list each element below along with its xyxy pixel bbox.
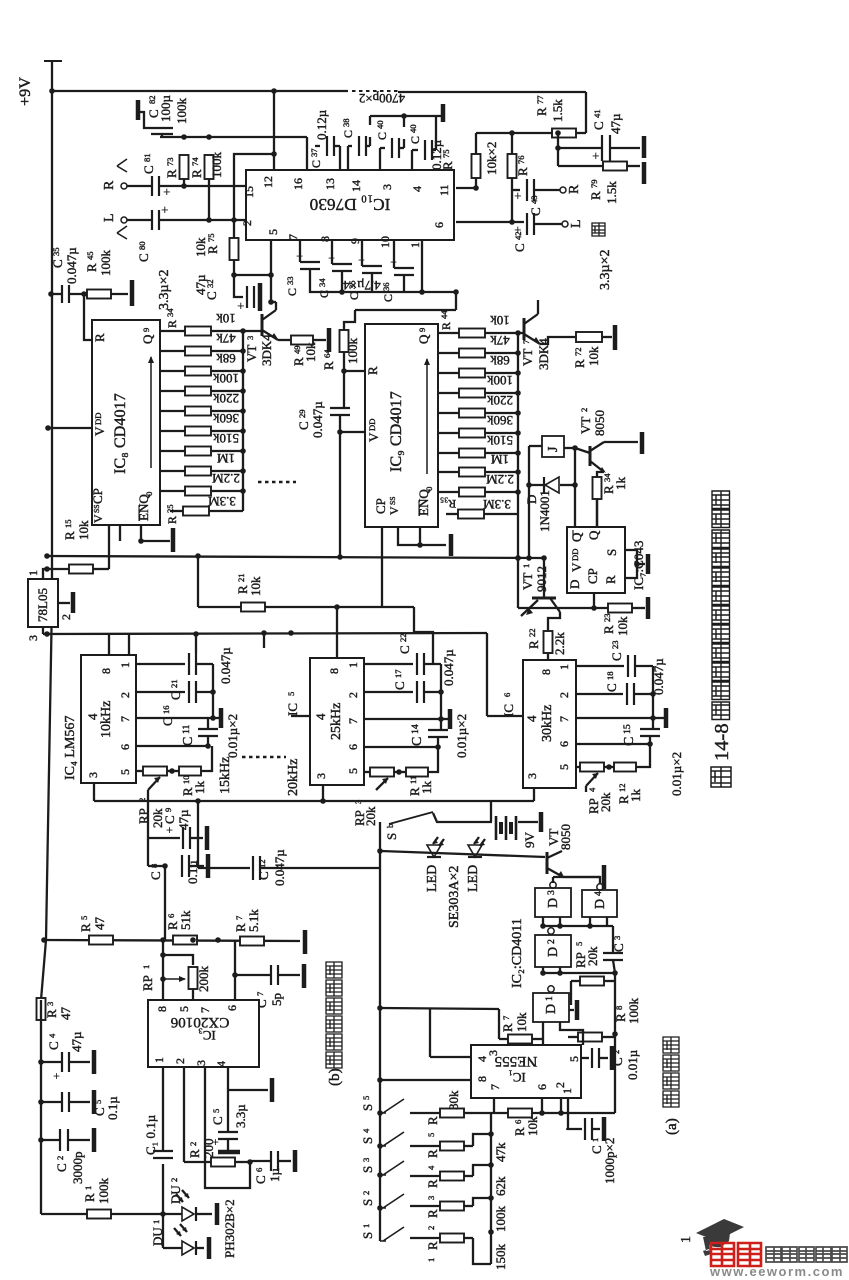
svg-text:R: R — [78, 923, 93, 932]
svg-text:2: 2 — [557, 692, 571, 698]
node rail 634 — [44, 631, 50, 637]
svg-text:S: S — [384, 833, 399, 840]
svg-text:8: 8 — [327, 668, 341, 674]
svg-text:1: 1 — [679, 1236, 694, 1243]
svg-text:R: R — [92, 333, 107, 342]
wire pin1 78L05 — [43, 569, 46, 579]
svg-text:+: + — [328, 251, 335, 265]
svg-text:CX20106: CX20106 — [170, 1014, 229, 1030]
svg-text:0.01µ×2: 0.01µ×2 — [669, 752, 684, 796]
wire IC8 Q3 row — [160, 390, 186, 392]
svg-text:9V: 9V — [522, 832, 537, 849]
resistor R25 3.3M — [183, 507, 209, 516]
node 271 302 — [268, 299, 274, 305]
svg-text:S: S — [360, 1232, 375, 1239]
wire rail right segment — [398, 91, 586, 93]
svg-text:5: 5 — [286, 692, 296, 696]
wire FF CP — [593, 593, 595, 608]
resistor ladder8 10k — [185, 327, 211, 336]
svg-text:5: 5 — [79, 916, 89, 920]
ground SR — [646, 554, 651, 574]
wire R3tx — [410, 1175, 440, 1177]
wire rail dashed gap — [352, 90, 398, 92]
resistor R75 input 10k — [230, 238, 239, 260]
capacitor C41 — [601, 135, 603, 161]
svg-text:SS: SS — [92, 505, 101, 513]
svg-text:ENQ: ENQ — [136, 494, 151, 521]
node bus8 411 — [240, 408, 246, 414]
wire R7tx left col — [498, 1009, 500, 1039]
svg-text:CP: CP — [373, 498, 388, 514]
wire IC9 Q8 row — [438, 491, 460, 493]
wire C12 col — [197, 801, 199, 868]
svg-text:17: 17 — [393, 669, 403, 678]
svg-text:4: 4 — [426, 1165, 436, 1170]
svg-text:7: 7 — [198, 1007, 212, 1013]
ground VT tx — [602, 865, 607, 889]
resistor R7tx 10k — [508, 1035, 532, 1044]
resistor R5 47 — [89, 936, 113, 945]
wire S pin — [625, 550, 637, 578]
svg-text:R: R — [425, 1149, 440, 1158]
node rail C35 — [48, 291, 54, 297]
node bus380 1080 — [377, 1077, 383, 1083]
svg-text:3: 3 — [26, 635, 40, 641]
wire IC9 Q1 row — [438, 352, 460, 354]
wire pin3 78L05 — [42, 627, 44, 634]
svg-text:3: 3 — [194, 1060, 208, 1066]
wire CP9 drop — [381, 527, 383, 607]
wire Vss drop — [119, 525, 121, 541]
svg-text:8050: 8050 — [592, 410, 607, 436]
counter IC8 CD4017 box — [92, 320, 160, 525]
svg-text:41: 41 — [592, 109, 602, 118]
resistor R76 — [508, 154, 517, 178]
resistor ladder9 510k — [459, 449, 485, 458]
svg-text:R: R — [603, 575, 618, 584]
svg-text:R: R — [321, 361, 336, 370]
svg-text:82: 82 — [147, 95, 157, 104]
svg-text:6: 6 — [513, 1119, 523, 1124]
wire C9 down — [147, 838, 149, 866]
svg-text:47k: 47k — [216, 331, 236, 346]
capacitor C12 — [252, 856, 254, 880]
wire C42 right — [534, 223, 562, 225]
svg-text:R: R — [165, 516, 179, 524]
wire VT7 base — [518, 332, 524, 334]
timer IC1 NE555 box — [471, 1045, 581, 1098]
wire 213 col — [212, 664, 214, 718]
svg-text:VT: VT — [520, 573, 535, 590]
ellipsis bus continuation — [258, 481, 296, 484]
wire pin2 row IC6 — [576, 693, 623, 695]
resistor ladder9 1M — [459, 468, 485, 477]
wire bus 634 — [43, 633, 487, 634]
arrow Q bus IC8 — [150, 357, 152, 468]
wire bus8 — [242, 331, 244, 511]
capacitor C23 — [627, 655, 629, 677]
wire pin5 row IC5 — [364, 771, 370, 773]
wire R1 elbow — [473, 1238, 491, 1264]
wire pin4 gnd2 — [228, 1089, 268, 1091]
svg-text:1k: 1k — [628, 789, 643, 803]
svg-text:10k: 10k — [76, 520, 91, 540]
wire R77 left — [476, 132, 552, 134]
svg-text:25kHz: 25kHz — [329, 703, 344, 740]
tone decoder IC4 LM567 box — [81, 655, 136, 783]
ground C2tx — [610, 1046, 615, 1070]
LED2 — [468, 845, 482, 857]
wire C34 down — [341, 271, 343, 292]
svg-text:44: 44 — [439, 310, 449, 319]
wire C14 col — [440, 719, 442, 730]
node bus9 393 — [515, 390, 521, 396]
switch S4 — [383, 1132, 404, 1146]
resistor ladder8 47k — [185, 347, 211, 356]
svg-text:8: 8 — [539, 669, 553, 675]
node bus8 451 — [240, 448, 246, 454]
wire R76 top — [511, 133, 513, 154]
wire pin2 78L05 — [58, 602, 70, 604]
svg-text:20k: 20k — [585, 946, 600, 966]
svg-text:3: 3 — [353, 800, 363, 804]
wire IC6 pin4 drop — [486, 633, 488, 716]
ground C32 — [258, 283, 263, 311]
svg-text:3: 3 — [546, 890, 557, 895]
wire pin7 row IC6 — [576, 717, 653, 719]
svg-text:1N4001: 1N4001 — [537, 490, 552, 532]
svg-text:10k: 10k — [248, 576, 263, 596]
transistor VT2 8050 — [589, 446, 592, 466]
resistor R79 — [603, 162, 627, 171]
svg-text:7: 7 — [286, 234, 300, 240]
node SR — [634, 561, 640, 567]
ground C1tx — [602, 1117, 607, 1141]
svg-text:100k: 100k — [213, 371, 240, 386]
svg-text:43: 43 — [529, 195, 539, 204]
node rail 556 — [44, 553, 50, 559]
wire IC9 Q7 row — [438, 471, 460, 473]
wire row940 — [44, 940, 300, 941]
counter IC9 CD4017 box — [365, 324, 438, 527]
wire VT2 collector — [604, 441, 638, 443]
battery 9V — [495, 816, 498, 840]
svg-text:(a): (a) — [664, 1118, 680, 1135]
node r8 right — [612, 1031, 618, 1037]
svg-text:1: 1 — [408, 242, 422, 248]
svg-text:CP: CP — [585, 568, 600, 584]
wire ladder bus tx — [490, 1113, 492, 1264]
trimmer RP5 20k — [580, 977, 604, 986]
node RP3b — [396, 769, 402, 775]
svg-text:IC₁: IC₁ — [508, 1070, 526, 1085]
svg-text:30kHz: 30kHz — [540, 705, 555, 742]
svg-text:0: 0 — [424, 487, 434, 491]
wire EN drop — [141, 525, 170, 541]
svg-text:150k: 150k — [493, 1244, 508, 1271]
svg-text:51k: 51k — [178, 910, 193, 930]
decoder IC3 CX20106 box — [148, 1000, 259, 1067]
svg-text:35: 35 — [51, 247, 61, 256]
resistor ladder8 1M — [185, 467, 211, 476]
svg-text:23: 23 — [610, 640, 620, 649]
node C41 left — [555, 145, 561, 151]
node bus634 264 — [261, 630, 267, 636]
node bus380 S2 — [377, 1205, 383, 1211]
wire Q bar vertical — [574, 448, 576, 527]
node rail 1140 — [38, 1137, 44, 1143]
node RP1 a — [160, 952, 166, 958]
node bias 154 — [271, 151, 277, 157]
wire C43 right — [534, 189, 560, 191]
svg-text:PH302B×2: PH302B×2 — [222, 1199, 237, 1258]
svg-text:3.3µ×2: 3.3µ×2 — [157, 270, 172, 310]
capacitor C15 — [640, 728, 660, 730]
node rail 1060 — [38, 1059, 44, 1065]
svg-text:+9V: +9V — [16, 77, 34, 106]
wire R3 elbow — [473, 1165, 491, 1176]
capacitor C4 — [61, 1052, 63, 1072]
node bus9 333 — [515, 330, 521, 336]
wire C39 — [380, 147, 385, 149]
svg-text:LED: LED — [425, 865, 440, 892]
wire LED row — [380, 851, 545, 857]
ground R72 — [613, 325, 618, 350]
node C21 top — [193, 631, 199, 637]
capacitor C33 — [300, 261, 320, 263]
wire bus 801 — [94, 800, 534, 802]
resistor R8 100k — [578, 1033, 602, 1042]
wire C5b down — [227, 1139, 229, 1150]
wire R11 right — [428, 747, 438, 772]
svg-text:7: 7 — [501, 1015, 511, 1020]
capacitor C32 — [246, 286, 248, 308]
resistor R3tx — [440, 1172, 464, 1181]
svg-text:22: 22 — [398, 633, 408, 642]
svg-text:47µ: 47µ — [176, 809, 191, 830]
photodiode DU2 — [182, 1207, 194, 1221]
svg-text:2: 2 — [188, 1142, 198, 1146]
wire bus 607 — [198, 606, 414, 608]
bubble D2 — [548, 928, 554, 934]
node bustx 1198 — [488, 1195, 494, 1201]
wire 275 link — [234, 274, 271, 276]
wire VT tx base down — [552, 877, 554, 883]
ellipsis 15-20kHz — [242, 756, 286, 759]
ground pin4b — [270, 1078, 275, 1102]
svg-text:Q: Q — [140, 334, 155, 344]
resistor R21 — [241, 603, 265, 612]
svg-text:C₁ 0.1µ: C₁ 0.1µ — [143, 1114, 158, 1155]
svg-text:R: R — [439, 322, 453, 330]
wire 615 col — [614, 973, 616, 1037]
svg-text:+: + — [53, 1069, 60, 1083]
resistor R1 100k — [87, 1210, 111, 1219]
svg-text:0.12µ: 0.12µ — [314, 109, 329, 140]
wire VT7 collector — [537, 300, 539, 314]
svg-text:3.3M: 3.3M — [483, 497, 511, 512]
wire C21 top — [195, 634, 197, 653]
svg-text:RP: RP — [140, 975, 155, 991]
svg-text:3000p: 3000p — [70, 1152, 85, 1185]
ground pin7 IC6 — [664, 708, 669, 728]
wire C21 right — [196, 663, 213, 665]
node rp5 t — [612, 970, 618, 976]
svg-text:2.2M: 2.2M — [486, 472, 514, 487]
wire C41 right — [610, 147, 640, 149]
wire C41 left — [558, 147, 602, 149]
svg-text:25: 25 — [165, 504, 175, 513]
svg-text:VT: VT — [578, 417, 593, 434]
capacitor C6 1µ — [270, 1151, 272, 1171]
svg-text:15kHz: 15kHz — [218, 757, 233, 794]
node 337 607 — [334, 604, 340, 610]
svg-text:V: V — [569, 562, 584, 572]
wire C4 — [41, 1061, 62, 1063]
svg-text:10: 10 — [181, 775, 191, 784]
wire Q pin — [596, 499, 598, 527]
svg-text:C: C — [148, 871, 163, 880]
wire C35 node down — [84, 294, 92, 340]
resistor R11 — [406, 768, 428, 777]
resistor R15 — [69, 565, 93, 574]
svg-text:R: R — [164, 169, 179, 178]
node pin7 IC6 — [650, 715, 656, 721]
resistor R75 — [472, 154, 481, 178]
svg-text:11: 11 — [437, 184, 451, 196]
ground ENVss9 — [449, 534, 454, 556]
transistor VT7 3DK4 — [523, 318, 526, 340]
svg-text:20kHz: 20kHz — [286, 759, 301, 796]
arrows DU1 — [174, 1228, 181, 1236]
svg-text:22: 22 — [527, 628, 537, 637]
wire RP1 top — [163, 955, 193, 965]
node bus380 S5 — [377, 1110, 383, 1116]
resistor ladder9 10k — [459, 329, 485, 338]
wire 653 col top — [652, 666, 654, 718]
diode D 1N4001 — [545, 477, 559, 493]
svg-text:5: 5 — [567, 1056, 581, 1062]
wire C1 col — [162, 1067, 164, 1150]
wire IC9 Q3 row — [438, 392, 460, 394]
node Sb pivot — [377, 848, 383, 854]
ground C4 — [92, 1050, 97, 1074]
wire D right — [560, 484, 575, 486]
node R2 right — [247, 1159, 253, 1165]
wire bus 557 — [47, 556, 544, 558]
svg-text:(b): (b) — [327, 1068, 343, 1086]
node bus8 351 — [240, 348, 246, 354]
wire C1tx right — [592, 1128, 600, 1130]
svg-text:6: 6 — [502, 692, 512, 697]
svg-text:IC₉ CD4017: IC₉ CD4017 — [387, 391, 405, 472]
wire R25 left — [170, 510, 183, 512]
wire 607 to 633 — [414, 607, 433, 664]
bubble D4 — [597, 884, 603, 890]
svg-text:40: 40 — [375, 120, 385, 129]
wire bottom bus 310 — [355, 309, 456, 311]
svg-text:DD: DD — [570, 549, 580, 561]
svg-text:80: 80 — [137, 241, 147, 250]
ground C5b — [218, 1150, 240, 1155]
svg-text:R: R — [44, 1009, 59, 1018]
svg-text:37: 37 — [309, 148, 319, 157]
wire 302 line — [271, 301, 276, 303]
resistor R73 — [180, 155, 189, 179]
wire VT3 emitter — [278, 339, 290, 341]
arrow RP4 — [586, 773, 598, 786]
wire C33 down — [310, 269, 456, 292]
node bias L — [231, 217, 237, 223]
svg-text:10k×2: 10k×2 — [484, 142, 499, 175]
wire C43 left — [512, 189, 520, 191]
wire C9 row — [148, 837, 180, 839]
svg-text:3: 3 — [486, 1050, 500, 1056]
wire RP4 right — [604, 766, 614, 768]
svg-text:47k: 47k — [490, 333, 510, 348]
resistor ladder9 2.2M — [459, 488, 485, 497]
ground battery — [539, 812, 544, 832]
wire C11 col — [207, 718, 209, 729]
svg-text:360k: 360k — [487, 413, 514, 428]
wire R4tx — [410, 1145, 440, 1147]
wire R5tx — [410, 1112, 440, 1114]
wire IC8 Q2 row — [160, 370, 186, 372]
wire pin6 row IC6 — [576, 743, 650, 745]
ground VT2 — [640, 432, 645, 454]
svg-text:38: 38 — [341, 118, 351, 127]
wire C29 bottom — [339, 415, 341, 432]
svg-text:IC₂:CD4011: IC₂:CD4011 — [510, 918, 525, 988]
ground 4700p bus — [441, 104, 446, 122]
svg-text:1µ: 1µ — [267, 1168, 282, 1183]
node bustx 1232 — [488, 1229, 494, 1235]
capacitor C14 — [428, 729, 448, 731]
capacitor C16 — [188, 681, 190, 703]
node R77 left — [555, 130, 561, 136]
svg-text:1: 1 — [151, 1220, 161, 1224]
svg-text:V: V — [366, 432, 381, 442]
svg-text:VT: VT — [520, 349, 535, 366]
wire C8 right — [189, 865, 204, 867]
node 198 801 — [195, 798, 201, 804]
capacitor C1tx — [584, 1118, 586, 1140]
svg-text:NE555: NE555 — [495, 1053, 538, 1069]
svg-text:12: 12 — [261, 176, 275, 188]
svg-text:9012: 9012 — [534, 566, 549, 592]
svg-text:+: + — [161, 202, 169, 217]
wire IC8 Q0 row — [160, 330, 186, 332]
node pin2 1113 — [558, 1110, 564, 1116]
wire pin1 row IC4 — [136, 663, 185, 665]
wire pin6 — [456, 221, 524, 223]
resistor ladder9 360k — [459, 429, 485, 438]
node VDD IC9 — [337, 429, 343, 435]
svg-text:R: R — [588, 191, 603, 200]
svg-text:IC: IC — [285, 703, 300, 716]
ground C82 — [136, 100, 141, 120]
svg-text:R: R — [62, 531, 77, 540]
wire RP5 — [571, 980, 580, 982]
wire C82 to ground — [136, 112, 151, 128]
wire C35b down — [371, 273, 373, 292]
wire VT2 base — [575, 448, 590, 453]
wire pin4 CX down — [227, 1067, 229, 1132]
node pin6 line — [509, 219, 515, 225]
capacitor C35b — [362, 265, 382, 267]
svg-text:6: 6 — [535, 1084, 549, 1090]
node bus9 373 — [515, 370, 521, 376]
